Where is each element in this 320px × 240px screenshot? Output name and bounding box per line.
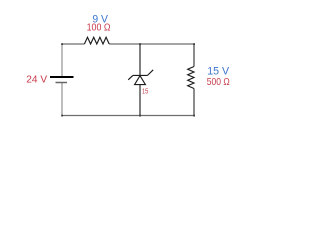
svg-text:15 V: 15 V — [207, 66, 229, 78]
svg-text:500 Ω: 500 Ω — [207, 77, 230, 88]
svg-text:100 Ω: 100 Ω — [87, 23, 111, 34]
svg-text:15: 15 — [142, 87, 148, 96]
svg-text:24 V: 24 V — [26, 75, 47, 86]
